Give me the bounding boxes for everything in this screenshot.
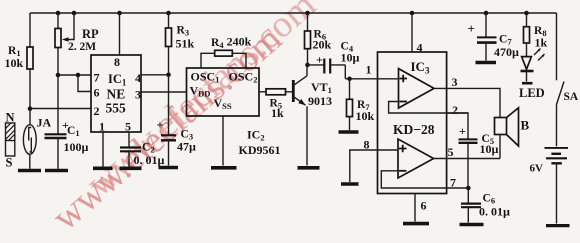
svg-text:1k: 1k	[535, 36, 548, 50]
node C5/C6/pin7 junction	[466, 186, 471, 191]
capacitor C5 10u	[459, 124, 499, 156]
svg-text:10µ: 10µ	[341, 51, 360, 65]
wire R3 to pin4 junction	[168, 47, 170, 75]
reed switch JA	[23, 116, 51, 155]
battery bottom bar	[546, 224, 570, 227]
resistor R7 10k	[347, 79, 375, 130]
ground C6	[460, 223, 484, 227]
ground pin1	[93, 167, 113, 171]
resistor R5 1k	[259, 89, 293, 120]
wire top supply rail	[30, 12, 557, 14]
node rail pin4 IC3	[410, 11, 415, 16]
svg-text:10k: 10k	[5, 56, 24, 70]
resistor R1	[5, 45, 34, 70]
wire pin 6 of IC3 to ground	[414, 194, 416, 222]
node rail RP wiper	[72, 11, 77, 16]
node rail R8	[524, 11, 529, 16]
svg-text:NE: NE	[107, 87, 126, 102]
svg-text:IC3: IC3	[411, 59, 430, 76]
svg-text:10µ: 10µ	[480, 142, 499, 156]
wire pin 6 jog	[78, 75, 91, 92]
svg-text:4: 4	[417, 41, 423, 55]
wire VSS to ground	[222, 116, 224, 166]
svg-text:2. 2M: 2. 2M	[68, 41, 96, 53]
ground VT1 emitter	[298, 166, 320, 170]
svg-text:OSC1: OSC1	[191, 70, 220, 85]
wire C3 to ground	[168, 140, 170, 165]
svg-text:6V: 6V	[530, 163, 544, 175]
ground pin6	[403, 222, 429, 226]
svg-text:0. 01µ: 0. 01µ	[134, 153, 165, 167]
wire pin 5 of IC3 to speaker	[434, 158, 500, 160]
op-amp U1 of IC3	[399, 69, 435, 108]
svg-text:KD9561: KD9561	[239, 143, 281, 157]
svg-text:OSC2: OSC2	[229, 70, 258, 85]
ground R7	[339, 130, 359, 134]
svg-text:4: 4	[135, 71, 141, 85]
svg-text:1: 1	[99, 120, 105, 134]
wire pin 7 of IC1	[58, 74, 91, 76]
svg-text:51k: 51k	[176, 37, 195, 51]
svg-text:5: 5	[125, 120, 131, 134]
svg-text:6: 6	[421, 199, 427, 213]
battery 6V	[530, 148, 569, 175]
wire collector up	[306, 65, 308, 76]
speaker B	[495, 108, 530, 159]
wire pin 5 of IC1 to C2	[128, 132, 130, 147]
svg-text:RP: RP	[82, 27, 99, 41]
node junction R1/JA/pin2	[28, 106, 33, 111]
IC U2 KD9561 box	[187, 68, 281, 157]
wire R1 to JA junction	[29, 69, 31, 110]
svg-text:S: S	[6, 156, 13, 170]
IC U1 NE555 box	[91, 55, 141, 134]
node rail R3	[166, 11, 171, 16]
wire pin 3 of IC1 to VDD	[141, 91, 187, 93]
wire C4 down to pin1 row	[344, 65, 346, 79]
watermark second copy	[78, 0, 323, 205]
node R6/collector/C4 junction	[305, 63, 310, 68]
ground C3	[159, 166, 179, 170]
svg-text:C1: C1	[67, 125, 80, 138]
ground VSS	[211, 166, 237, 170]
wire C6 to ground	[467, 207, 469, 222]
magnet N/S	[6, 111, 15, 170]
svg-text:JA: JA	[37, 116, 52, 130]
op-amp U2 of IC3	[398, 139, 434, 178]
wire pin 2 of IC3 to C5	[447, 113, 468, 139]
svg-text:20k: 20k	[313, 38, 332, 52]
node rail pin8	[117, 11, 122, 16]
wire pin 4 of IC1	[141, 74, 169, 76]
wire pin 4 of IC3	[411, 13, 413, 52]
resistor R6 20k	[305, 13, 332, 65]
wire emitter to ground	[306, 106, 308, 165]
wire pin 3 of IC3 to speaker	[434, 88, 500, 117]
wire pin 2 of IC1	[30, 108, 91, 110]
wire C7 to ground	[485, 43, 487, 61]
IC U3 KD-28 box	[364, 41, 459, 213]
svg-text:IC1: IC1	[108, 72, 127, 88]
svg-text:8: 8	[114, 55, 120, 69]
svg-text:+: +	[157, 118, 164, 132]
node rail C7	[484, 11, 489, 16]
wire C2 to ground	[128, 151, 130, 166]
capacitor C7 470u	[468, 13, 520, 59]
svg-text:1k: 1k	[271, 106, 284, 120]
svg-text:+: +	[316, 53, 323, 67]
wire battery negative	[556, 163, 558, 223]
svg-text:SA: SA	[564, 91, 579, 103]
wire pin 1 of IC3	[345, 78, 398, 80]
svg-text:10k: 10k	[356, 109, 375, 123]
capacitor C3 47u	[157, 118, 197, 154]
svg-text:B: B	[521, 118, 530, 133]
svg-text:1: 1	[366, 63, 372, 77]
watermark	[44, 18, 289, 239]
wire pin 8 of IC3 to ground	[350, 150, 398, 182]
switch SA	[557, 13, 579, 105]
wire left rail down to R1	[29, 13, 31, 47]
ground C2	[120, 167, 142, 171]
wire SA to battery	[556, 105, 558, 147]
ground C7	[476, 61, 497, 65]
resistor R4 240k loop	[201, 35, 252, 68]
wire C1 to ground	[57, 138, 59, 169]
svg-text:3: 3	[135, 88, 141, 102]
svg-text:IC2: IC2	[247, 127, 265, 142]
node rail RP top	[56, 11, 61, 16]
svg-text:6: 6	[94, 86, 100, 100]
svg-text:2: 2	[452, 103, 458, 117]
svg-text:7: 7	[94, 71, 100, 85]
capacitor C6 0.01u	[461, 188, 510, 219]
svg-text:+: +	[468, 21, 475, 36]
svg-text:R4 240k: R4 240k	[211, 35, 252, 51]
svg-text:LED: LED	[519, 86, 545, 100]
wire JA to ground	[29, 154, 31, 169]
resistor R8 1k	[524, 13, 548, 57]
capacitor C1 100u	[45, 118, 89, 154]
node pin6 jog junction	[76, 73, 81, 78]
node pin4/R3/C3 junction	[166, 73, 171, 78]
svg-text:+: +	[459, 124, 466, 138]
svg-text:555: 555	[106, 101, 127, 116]
node C4/R7/pin1 junction	[347, 77, 352, 82]
svg-text:470µ: 470µ	[494, 45, 519, 59]
svg-text:9013: 9013	[308, 94, 332, 108]
resistor R3 51k	[166, 13, 195, 51]
svg-text:100µ: 100µ	[64, 140, 89, 154]
capacitor C2 0.01u	[120, 142, 165, 168]
node RP/C1/pin7 junction	[56, 73, 61, 78]
potentiometer RP 2.2M	[55, 13, 99, 75]
wire JA top lead	[29, 109, 31, 126]
svg-text:47µ: 47µ	[177, 140, 196, 154]
wire pin 8 of IC1	[119, 13, 121, 55]
svg-text:2: 2	[94, 104, 100, 118]
wire op2 feedback to pin 7	[381, 171, 468, 188]
svg-text:VT1: VT1	[311, 80, 332, 95]
svg-text:5: 5	[448, 145, 454, 159]
svg-text:KD−28: KD−28	[393, 122, 435, 137]
node rail R6	[305, 11, 310, 16]
wire pin 1 of IC1 to ground	[102, 132, 104, 167]
wire junction to C1	[57, 75, 59, 134]
ground C1	[45, 169, 68, 173]
capacitor C4 10u	[308, 41, 360, 74]
wire junction to C3	[168, 75, 170, 136]
transistor VT1 9013	[293, 76, 332, 108]
svg-text:0. 01µ: 0. 01µ	[479, 205, 510, 219]
wire op1 feedback to pin 2	[389, 102, 468, 114]
wire C5 down to pin7 node	[467, 143, 469, 188]
svg-text:3: 3	[452, 75, 458, 89]
LED	[519, 49, 545, 101]
ground pin8	[341, 182, 359, 186]
ground JA	[18, 169, 41, 173]
